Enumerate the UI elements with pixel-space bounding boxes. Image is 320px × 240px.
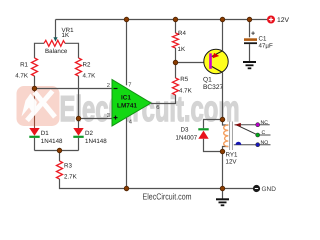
wire relay bottom to ground rail — [222, 152, 224, 189]
node relay top — [220, 117, 225, 122]
ground symbol at C1 — [243, 62, 256, 68]
svg-text:R3: R3 — [64, 162, 72, 169]
svg-text:R4: R4 — [178, 30, 186, 37]
resistor R2 4.7K — [76, 58, 97, 79]
svg-text:GND: GND — [262, 186, 277, 193]
wire node R2 to op-amp pin 3 — [79, 118, 113, 120]
wire C1 top lead from rail — [249, 20, 251, 38]
node base R4 R5 — [173, 60, 178, 65]
contact C terminal — [256, 133, 260, 137]
wire Q1 emitter to rail — [222, 20, 224, 51]
svg-text:R5: R5 — [180, 76, 188, 83]
wire op-amp pin 7 to rail — [126, 20, 128, 86]
svg-text:Balance: Balance — [45, 48, 68, 55]
wire R2 bottom to node — [78, 76, 80, 119]
wire D2 cathode to bottom wire — [78, 138, 80, 151]
svg-text:R2: R2 — [83, 61, 91, 68]
node ground rail pin4 — [124, 186, 129, 191]
svg-text:12V: 12V — [277, 17, 290, 24]
resistor R4 1K — [173, 30, 187, 53]
svg-text:+: + — [251, 31, 255, 38]
svg-text:IC1: IC1 — [121, 95, 131, 102]
watermark logo box — [17, 86, 60, 126]
node R1 pin2 — [32, 86, 37, 91]
wire R3 top lead — [59, 151, 61, 162]
wire top rail 12V — [56, 19, 268, 21]
svg-text:RY1: RY1 — [226, 152, 238, 159]
wire op-amp pin 4 to ground rail — [126, 118, 128, 189]
contact NC terminal — [256, 123, 260, 127]
svg-text:4.7K: 4.7K — [179, 88, 193, 95]
NO blue bump — [236, 142, 242, 145]
svg-text:ElecCircuit.com: ElecCircuit.com — [60, 88, 240, 129]
svg-text:3: 3 — [107, 112, 110, 119]
wire D1-D2 junction row — [35, 150, 79, 152]
svg-text:2.7K: 2.7K — [64, 173, 78, 180]
node rail R4 — [173, 17, 178, 22]
wire C1 bottom to ground symbol — [249, 44, 251, 61]
wire R3 bottom to ground rail — [60, 179, 254, 189]
ground symbol main — [216, 189, 229, 206]
svg-text:D2: D2 — [85, 130, 93, 137]
svg-text:2: 2 — [107, 82, 110, 89]
node rail Q1 emitter — [220, 17, 225, 22]
resistor R3 2.7K — [57, 161, 78, 180]
resistor R5 4.7K — [173, 76, 193, 95]
transistor Q1 BC327 — [203, 49, 228, 91]
svg-text:1N4148: 1N4148 — [41, 138, 63, 145]
svg-text:D1: D1 — [41, 130, 49, 137]
wire relay bottom branch to D3 — [204, 139, 223, 152]
wire R1 bottom to node — [34, 76, 36, 89]
wire Q1 collector to relay node — [222, 73, 224, 120]
node R2 pin3 — [76, 116, 81, 121]
node rail C1 — [247, 17, 252, 22]
svg-text:1K: 1K — [178, 46, 186, 53]
terminal +12V — [267, 16, 290, 25]
svg-text:1K: 1K — [62, 32, 70, 39]
wire op-amp output pin 6 to R5 — [151, 95, 176, 104]
svg-text:Q1: Q1 — [203, 77, 212, 84]
svg-text:1N4007: 1N4007 — [176, 135, 198, 142]
svg-text:4.7K: 4.7K — [15, 72, 29, 79]
svg-text:D3: D3 — [181, 127, 189, 134]
potentiometer VR1 1K Balance — [44, 27, 74, 55]
wire D2 anode drop — [78, 119, 80, 129]
resistor R1 4.7K — [15, 58, 37, 79]
svg-text:1N4148: 1N4148 — [85, 138, 107, 145]
svg-text:7: 7 — [128, 83, 131, 89]
diode D3 1N4007 flyback — [176, 127, 209, 142]
wire D1 cathode to bottom wire — [34, 138, 36, 151]
diode D2 1N4148 — [73, 128, 107, 145]
wire VR1 wiper drop — [55, 20, 57, 38]
svg-text:R1: R1 — [20, 61, 28, 68]
wire VR1 left lead to R1 — [35, 43, 45, 58]
wire VR1 right lead to R2 — [65, 43, 79, 58]
svg-text:12V: 12V — [226, 159, 238, 166]
node D1 D2 R3 — [57, 148, 62, 153]
node rail pin7 — [124, 17, 129, 22]
watermark logo overlay — [22, 91, 56, 121]
wire R4 top lead from rail — [175, 20, 177, 34]
wire D1 anode drop (tinted by watermark) — [34, 89, 36, 129]
wire node R1 to op-amp pin 2 — [35, 88, 113, 90]
svg-text:NO: NO — [261, 140, 269, 146]
wire base node to Q1 base — [176, 62, 210, 64]
svg-text:C1: C1 — [259, 35, 267, 42]
node ground rail relay — [220, 186, 225, 191]
capacitor C1 47uF — [244, 31, 273, 50]
wire R4 bottom to base node — [175, 48, 177, 63]
svg-text:ElecCircuit.com: ElecCircuit.com — [143, 192, 192, 202]
op-amp IC1 LM741 — [112, 80, 151, 127]
svg-text:NC: NC — [261, 120, 269, 126]
svg-text:6: 6 — [156, 104, 159, 111]
relay RY1 coil — [223, 120, 238, 166]
diode D1 1N4148 — [29, 128, 63, 145]
relay contact NC line — [235, 124, 270, 126]
relay contact NO line — [234, 144, 271, 146]
svg-text:4.7K: 4.7K — [83, 72, 97, 79]
wire R5 top lead — [175, 63, 177, 79]
relay armature to C — [237, 125, 258, 135]
node relay bottom — [220, 149, 225, 154]
relay contact C line — [258, 134, 271, 136]
svg-text:BC327: BC327 — [203, 84, 223, 91]
contact NO terminal — [256, 143, 260, 147]
armature wedge — [234, 123, 241, 127]
svg-text:47µF: 47µF — [259, 42, 273, 49]
svg-text:C: C — [262, 130, 266, 136]
svg-text:LM741: LM741 — [117, 103, 137, 110]
terminal GND — [253, 185, 276, 193]
wire relay top branch to D3 — [204, 120, 223, 129]
